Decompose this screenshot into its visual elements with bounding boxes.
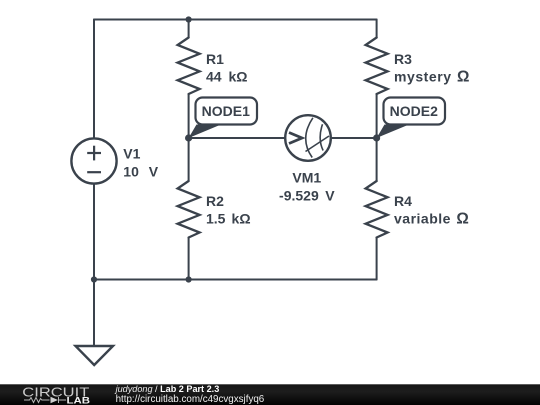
- wire R2 bottom lead: [188, 238, 190, 280]
- wire node1 to voltmeter: [189, 137, 285, 139]
- wire R4 top lead: [376, 138, 378, 181]
- svg-text:LAB: LAB: [67, 396, 91, 405]
- svg-text:R4: R4: [394, 193, 412, 209]
- voltage source V1: [71, 138, 116, 183]
- label V1 value: [123, 146, 158, 180]
- logo CircuitLab: [22, 385, 90, 405]
- wire right column R3 top lead: [376, 20, 378, 38]
- svg-text:NODE1: NODE1: [202, 103, 250, 119]
- wire voltmeter to node2: [331, 137, 377, 139]
- resistor R3: [366, 38, 388, 95]
- svg-text:variable Ω: variable Ω: [394, 210, 469, 227]
- resistor R1: [178, 38, 200, 95]
- label R4 value: [394, 193, 469, 228]
- wire left vertical upper (top to V1): [93, 20, 95, 139]
- resistor R2: [178, 181, 200, 238]
- svg-text:44 kΩ: 44 kΩ: [206, 69, 247, 85]
- wire ground lead: [93, 280, 95, 347]
- wire R4 bottom lead: [376, 238, 378, 280]
- svg-text:NODE2: NODE2: [390, 103, 438, 119]
- wire R2 top lead: [188, 138, 190, 181]
- svg-text:-9.529 V: -9.529 V: [279, 187, 335, 203]
- node junction bottom middle: [186, 276, 192, 282]
- label R3 value: [394, 51, 470, 86]
- label R2 value: [206, 193, 251, 227]
- ground: [76, 346, 114, 365]
- resistor R4: [366, 181, 388, 238]
- node A NODE1 flag: [185, 98, 257, 142]
- svg-text:1.5 kΩ: 1.5 kΩ: [206, 210, 251, 226]
- svg-text:R3: R3: [394, 51, 412, 67]
- svg-text:10 V: 10 V: [123, 163, 158, 179]
- svg-text:R1: R1: [206, 51, 224, 67]
- node junction top: [186, 16, 192, 22]
- wire middle column R1 top lead: [188, 20, 190, 38]
- svg-text:VM1: VM1: [292, 169, 321, 185]
- node B NODE2 flag: [373, 98, 445, 142]
- label R1 value: [206, 51, 247, 85]
- svg-text:http://circuitlab.com/c49cvgxs: http://circuitlab.com/c49cvgxsjfyq6: [116, 394, 265, 405]
- wire R1 bottom lead: [188, 94, 190, 138]
- node junction bottom left: [91, 276, 97, 282]
- wire left vertical lower (V1 to bottom): [93, 184, 95, 279]
- svg-text:mystery Ω: mystery Ω: [394, 69, 470, 86]
- svg-text:judydong / Lab 2 Part 2.3: judydong / Lab 2 Part 2.3: [114, 384, 220, 394]
- svg-text:V1: V1: [123, 146, 140, 162]
- wire top horizontal: [94, 19, 377, 21]
- svg-text:R2: R2: [206, 193, 224, 209]
- label VM1 value: [279, 169, 335, 203]
- wire bottom horizontal: [94, 279, 377, 281]
- wire R3 bottom lead: [376, 94, 378, 138]
- voltmeter VM1: [285, 115, 331, 161]
